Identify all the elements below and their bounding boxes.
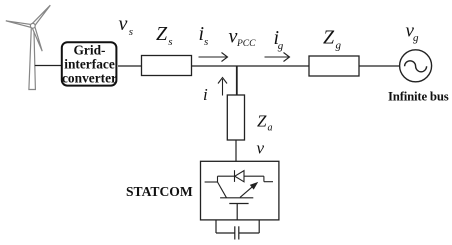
svg-text:i: i [203, 85, 208, 104]
svg-text:Z: Z [257, 111, 267, 130]
tower [29, 28, 36, 90]
svg-text:Z: Z [323, 26, 335, 48]
svg-text:interface: interface [64, 56, 115, 71]
svg-text:Grid-: Grid- [74, 42, 106, 57]
impedance Zs [142, 56, 192, 76]
svg-text:g: g [278, 40, 284, 52]
svg-text:g: g [413, 32, 419, 44]
wire turbine to converter [35, 65, 61, 67]
hub [30, 23, 35, 28]
dc capacitor [216, 220, 259, 240]
svg-text:s: s [129, 26, 133, 38]
svg-text:PCC: PCC [236, 39, 256, 49]
VSC left terminal [205, 176, 227, 198]
AC source infinite bus [400, 50, 432, 82]
grid-interface converter box [62, 42, 117, 85]
wire PCC down to Za [236, 66, 238, 95]
VSC right terminal with switch arrow [240, 176, 273, 197]
wire Za to STATCOM [235, 140, 237, 162]
svg-text:v: v [119, 13, 128, 35]
svg-text:STATCOM: STATCOM [126, 184, 193, 199]
svg-text:s: s [168, 36, 172, 48]
current i arrow [218, 78, 227, 96]
svg-text:g: g [336, 40, 342, 52]
svg-text:v: v [257, 139, 265, 158]
svg-text:s: s [204, 36, 208, 48]
wind turbine [6, 5, 51, 89]
svg-text:converter: converter [62, 70, 117, 85]
wire converter to Zs [118, 65, 142, 67]
blade down-right [32, 25, 42, 51]
current is arrow [199, 53, 228, 62]
impedance Za [227, 95, 244, 140]
wire Zg to source [359, 65, 400, 67]
VSC dc-side plates [220, 198, 253, 220]
blade left [6, 21, 32, 28]
svg-text:Infinite bus: Infinite bus [388, 90, 449, 104]
VSC diode branch [218, 170, 264, 182]
wire Zs to Zg through PCC [192, 65, 310, 67]
blade up-right [32, 5, 51, 27]
impedance Zg [309, 56, 359, 76]
STATCOM box [201, 161, 279, 220]
svg-text:a: a [268, 123, 273, 134]
svg-text:Z: Z [156, 23, 168, 45]
current ig arrow [265, 53, 290, 62]
